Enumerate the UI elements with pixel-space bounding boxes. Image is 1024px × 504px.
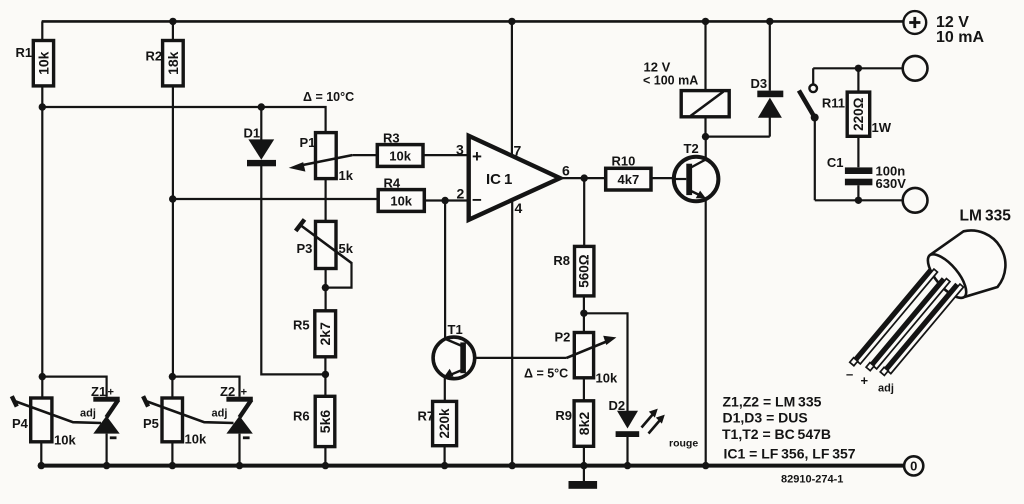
svg-text:Δ = 5°C: Δ = 5°C: [524, 367, 568, 381]
svg-text:10k: 10k: [390, 194, 412, 209]
svg-text:IC 1: IC 1: [486, 171, 512, 188]
svg-text:P3: P3: [297, 241, 313, 256]
svg-text:< 100 mA: < 100 mA: [643, 74, 698, 88]
svg-text:R2: R2: [146, 49, 163, 64]
svg-text:D1,D3 = DUS: D1,D3 = DUS: [723, 410, 808, 426]
svg-text:Z2: Z2: [220, 384, 235, 399]
svg-text:0: 0: [910, 459, 917, 474]
svg-text:R3: R3: [383, 131, 400, 146]
svg-text:7: 7: [514, 143, 522, 159]
svg-text:R7: R7: [418, 409, 435, 424]
svg-text:560Ω: 560Ω: [577, 254, 592, 288]
svg-text:R11: R11: [822, 96, 845, 111]
svg-text:D3: D3: [751, 76, 768, 91]
svg-text:10k: 10k: [36, 51, 52, 75]
svg-text:10k: 10k: [389, 148, 411, 163]
svg-text:+: +: [241, 387, 247, 399]
svg-text:+: +: [472, 147, 482, 166]
svg-text:6: 6: [562, 163, 570, 179]
svg-text:rouge: rouge: [669, 438, 698, 450]
svg-text:adj: adj: [212, 408, 228, 420]
svg-text:R6: R6: [293, 409, 310, 424]
svg-text:adj: adj: [80, 408, 96, 420]
svg-text:10 mA: 10 mA: [936, 29, 984, 46]
svg-text:220k: 220k: [437, 408, 452, 439]
svg-text:T1,T2 = BC 547B: T1,T2 = BC 547B: [722, 426, 831, 442]
svg-text:82910-274-1: 82910-274-1: [781, 474, 843, 486]
svg-text:5k6: 5k6: [317, 410, 333, 434]
svg-text:2k7: 2k7: [317, 322, 333, 346]
svg-text:18k: 18k: [165, 51, 181, 75]
svg-text:T2: T2: [684, 141, 699, 156]
svg-text:4: 4: [515, 200, 523, 216]
svg-text:3: 3: [456, 142, 464, 158]
svg-text:P2: P2: [555, 330, 571, 345]
svg-text:12 V: 12 V: [644, 60, 671, 75]
svg-text:220Ω: 220Ω: [851, 97, 866, 131]
svg-text:P1: P1: [300, 135, 316, 150]
svg-text:R8: R8: [553, 253, 570, 268]
svg-text:D2: D2: [609, 398, 626, 413]
svg-text:4k7: 4k7: [618, 172, 640, 187]
svg-text:Z1,Z2 = LM 335: Z1,Z2 = LM 335: [723, 394, 822, 410]
svg-text:R1: R1: [16, 45, 33, 60]
svg-text:IC1 = LF 356, LF 357: IC1 = LF 356, LF 357: [724, 446, 856, 462]
svg-text:R9: R9: [555, 408, 572, 423]
svg-text:+: +: [108, 387, 114, 399]
svg-text:−: −: [472, 191, 482, 210]
svg-text:10k: 10k: [596, 371, 618, 386]
svg-text:P4: P4: [12, 416, 29, 431]
svg-text:10k: 10k: [185, 432, 207, 447]
svg-text:Δ = 10°C: Δ = 10°C: [303, 90, 354, 104]
svg-text:2: 2: [457, 186, 465, 202]
svg-text:1k: 1k: [339, 168, 354, 183]
svg-text:P5: P5: [143, 416, 159, 431]
svg-text:Z1: Z1: [91, 384, 106, 399]
svg-text:–: –: [846, 367, 853, 382]
svg-text:+: +: [861, 373, 869, 388]
svg-text:R5: R5: [293, 318, 310, 333]
svg-text:630V: 630V: [876, 176, 907, 191]
svg-text:LM 335: LM 335: [960, 208, 1012, 225]
svg-text:R4: R4: [384, 176, 401, 191]
svg-text:D1: D1: [244, 126, 261, 141]
svg-text:10k: 10k: [54, 433, 76, 448]
svg-text:1W: 1W: [872, 120, 892, 135]
svg-text:5k: 5k: [339, 241, 354, 256]
svg-text:adj: adj: [878, 383, 894, 395]
svg-text:C1: C1: [827, 155, 844, 170]
svg-text:T1: T1: [448, 322, 463, 337]
svg-text:8k2: 8k2: [576, 412, 592, 436]
svg-text:R10: R10: [612, 154, 636, 169]
